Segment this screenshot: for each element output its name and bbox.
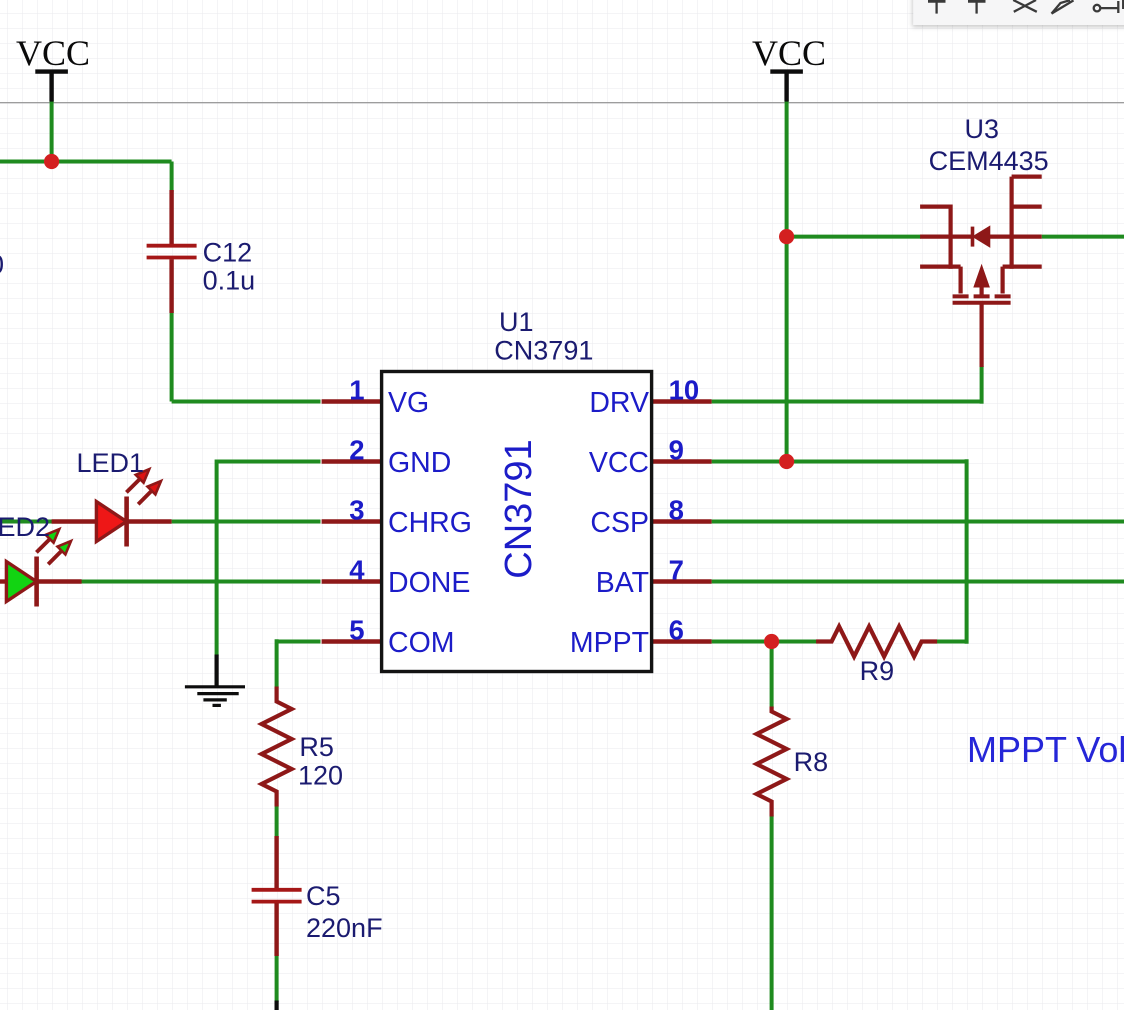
svg-text:CHRG: CHRG — [388, 507, 472, 539]
pin 6 stub — [652, 639, 712, 643]
power symbol VCC1 — [35, 72, 68, 102]
junction dot U3 source — [779, 229, 794, 244]
svg-text:2: 2 — [349, 434, 364, 465]
sheet border line — [0, 102, 1124, 104]
svg-text:CN3791: CN3791 — [498, 439, 540, 578]
wire U3 drain right — [1042, 235, 1124, 239]
svg-text:R8: R8 — [794, 747, 829, 777]
pin 9 stub — [652, 459, 712, 463]
pin 8 stub — [652, 519, 712, 523]
capacitor C12 — [147, 190, 197, 313]
transistor U3 CEM4435 — [920, 177, 1042, 367]
pin 10 stub — [652, 399, 712, 403]
svg-text:VCC: VCC — [589, 447, 649, 479]
LED LED2 — [0, 529, 82, 606]
capacitor C5 — [252, 836, 302, 956]
wire VCC1 stem — [50, 101, 54, 162]
power symbol VCC2 — [770, 72, 803, 102]
svg-text:6: 6 — [669, 614, 684, 645]
svg-text:7: 7 — [669, 554, 684, 585]
svg-text:R5: R5 — [299, 732, 334, 762]
svg-text:5: 5 — [349, 614, 364, 645]
pin 5 stub — [322, 639, 382, 643]
wire R9 right to corner — [937, 640, 967, 644]
svg-text:220nF: 220nF — [306, 913, 383, 943]
pin 4 stub — [322, 579, 382, 583]
svg-text:LED1: LED1 — [77, 448, 145, 478]
svg-text:8: 8 — [669, 494, 684, 525]
wire C5 bottom — [275, 955, 279, 1003]
junction dot MPPT — [764, 634, 779, 649]
svg-text:C5: C5 — [306, 881, 341, 911]
svg-text:DONE: DONE — [388, 567, 470, 599]
wire COM row — [277, 640, 321, 644]
wire VCC9 row — [712, 460, 967, 464]
pin 7 stub — [652, 579, 712, 583]
toolbar icon pen — [1052, 0, 1074, 13]
pin 2 stub — [322, 459, 382, 463]
wire GND vertical — [215, 460, 219, 656]
svg-text:BAT: BAT — [596, 567, 649, 599]
svg-text:LED2: LED2 — [0, 512, 50, 542]
LED LED1 — [52, 469, 172, 546]
wire U3 source left — [787, 235, 921, 239]
svg-text:U3: U3 — [965, 114, 1000, 144]
svg-text:CEM4435: CEM4435 — [929, 146, 1049, 176]
wire vertical R9 to VCC9 row — [965, 459, 969, 643]
wire VG row — [172, 400, 321, 404]
svg-text:MPPT Voltage: MPPT Voltage — [967, 729, 1124, 770]
toolbar panel top right — [913, 0, 1124, 25]
wire VCC2 stem vertical — [785, 101, 789, 462]
svg-text:VCC: VCC — [752, 33, 826, 73]
wire DRV row — [712, 400, 982, 404]
svg-text:VCC: VCC — [16, 33, 90, 73]
toolbar icon net label 1 — [928, 0, 946, 3]
wire CHRG row from LED1 — [172, 520, 321, 524]
wire C12 top — [170, 162, 174, 193]
pin 3 stub — [322, 519, 382, 523]
wire COM down to R5 — [275, 639, 279, 687]
wire CSP row — [712, 520, 1124, 524]
resistor R5 — [262, 687, 292, 807]
svg-text:CN3791: CN3791 — [494, 336, 593, 366]
svg-text:120: 120 — [298, 761, 343, 791]
wire LED1 anode left — [0, 520, 53, 524]
svg-text:C12: C12 — [203, 238, 253, 268]
wire MPPT down to R8 — [770, 642, 774, 708]
wire C12 bottom to VG corner — [170, 312, 174, 402]
svg-text:3: 3 — [349, 494, 364, 525]
wire MPPT row — [712, 640, 817, 644]
ground symbol — [185, 655, 245, 706]
toolbar icon net label 2 — [968, 0, 986, 3]
svg-text:0: 0 — [0, 250, 4, 280]
svg-text:COM: COM — [388, 627, 455, 659]
wire DONE row from LED2 — [81, 580, 321, 584]
svg-text:CSP: CSP — [590, 507, 649, 539]
wire R5 to C5 — [275, 806, 279, 838]
ground stub bottom of C5 net — [275, 1001, 279, 1010]
svg-text:DRV: DRV — [589, 387, 649, 419]
svg-text:0.1u: 0.1u — [203, 265, 256, 295]
svg-text:R9: R9 — [860, 656, 895, 686]
resistor R9 — [816, 627, 937, 657]
svg-text:U1: U1 — [499, 307, 534, 337]
junction dot VCC1 — [44, 154, 59, 169]
svg-text:VG: VG — [388, 387, 429, 419]
svg-text:1: 1 — [349, 374, 364, 405]
svg-text:MPPT: MPPT — [570, 627, 649, 659]
svg-text:10: 10 — [669, 374, 700, 405]
IC U1 pin stubs — [322, 402, 712, 642]
pin 1 stub — [322, 399, 382, 403]
svg-text:9: 9 — [669, 434, 684, 465]
wire BAT row — [712, 580, 1124, 584]
toolbar icon wire tool — [1094, 5, 1101, 12]
svg-text:4: 4 — [349, 554, 365, 585]
IC U1 CN3791 body box — [382, 372, 652, 672]
wire U3 gate down to DRV — [980, 366, 984, 404]
svg-text:GND: GND — [388, 447, 451, 479]
resistor R8 — [757, 707, 787, 817]
wire VCC1 net horizontal — [0, 160, 172, 164]
wire GND row — [217, 460, 321, 464]
toolbar icon no-connect X — [1013, 0, 1037, 12]
wire R8 bottom down — [770, 816, 774, 1010]
junction dot VCC pin9 — [779, 454, 794, 469]
